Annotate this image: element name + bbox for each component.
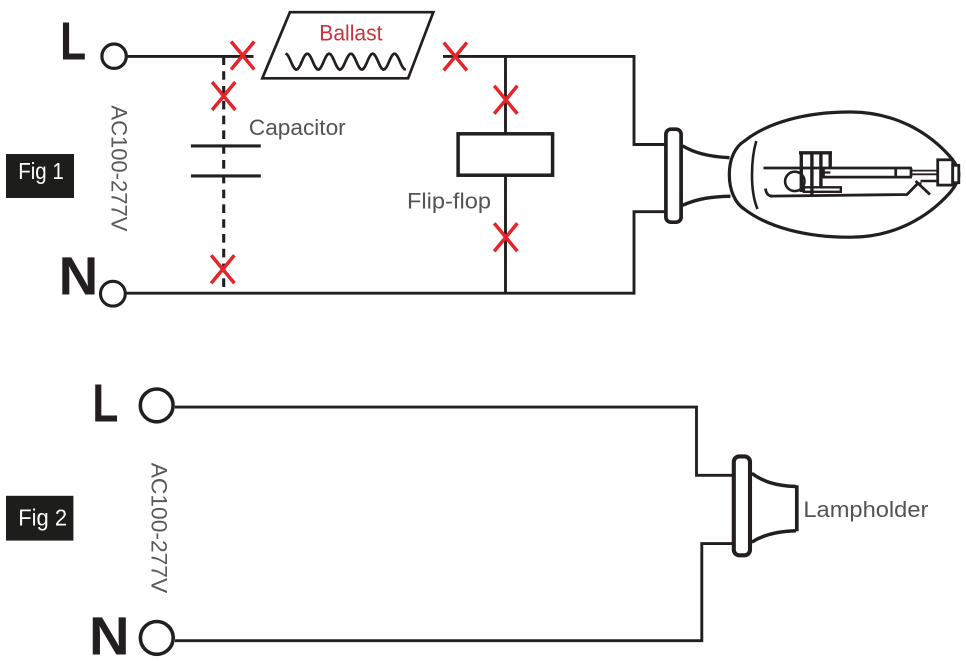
lamp socket trumpet bottom curve <box>683 196 731 205</box>
svg-text:AC100-277V: AC100-277V <box>146 463 171 594</box>
lamp stem top line <box>764 167 912 170</box>
lamp frame bottom wire <box>770 184 922 196</box>
lampholder mouth line <box>795 485 799 531</box>
cut mark X5 on flip-flop branch lower <box>494 223 517 251</box>
svg-text:N: N <box>89 607 130 661</box>
wire right bottom corner up to lamp <box>634 212 666 295</box>
flip-flop branch wire upper <box>504 56 507 133</box>
svg-text:Fig 2: Fig 2 <box>18 504 67 530</box>
capacitor plate bottom <box>191 174 261 177</box>
cut mark X3 after ballast <box>444 43 467 71</box>
Fig 1 badge <box>6 154 74 198</box>
wire L top (Fig 2) <box>175 407 732 475</box>
capacitor dashed branch wire <box>222 56 225 293</box>
lamp lead wire upper <box>912 170 938 172</box>
lamp end cap nub <box>953 165 959 182</box>
lamp mount foot bracket <box>804 187 841 192</box>
lampholder socket cup (Fig 2) <box>734 456 750 555</box>
ballast coil winding <box>286 54 406 70</box>
wire right top corner down to lamp <box>634 55 666 145</box>
lamp mount post 4 <box>829 153 832 168</box>
lamp frame diagonal support <box>916 181 931 195</box>
svg-text:Lampholder: Lampholder <box>803 497 928 522</box>
lamp arc tube band <box>823 168 912 177</box>
terminal circle N (Fig 2) <box>140 622 173 655</box>
lamp socket cup (Fig 1) <box>666 129 681 222</box>
svg-text:N: N <box>59 247 99 307</box>
svg-text:L: L <box>60 11 86 71</box>
lamp frame wire to end cap <box>921 180 938 183</box>
svg-text:L: L <box>92 374 118 434</box>
lamp lead wire lower <box>912 173 938 175</box>
capacitor plate top <box>191 144 261 147</box>
cut mark X4 on flip-flop branch <box>494 86 517 114</box>
svg-text:Fig 1: Fig 1 <box>18 158 64 184</box>
Fig 2 badge <box>6 496 73 541</box>
lamp arc tube left electrode <box>824 171 831 173</box>
terminal circle L (Fig 2) <box>140 389 173 422</box>
lampholder trumpet bottom curve <box>752 531 796 543</box>
cut mark X6 on capacitor branch lower <box>211 255 234 283</box>
lamp mount post 1 <box>800 153 803 192</box>
terminal circle L (Fig 1) <box>102 44 126 68</box>
cut mark X2 on capacitor branch <box>212 82 235 110</box>
lamp envelope outline <box>729 112 959 237</box>
flip-flop branch wire lower <box>504 175 507 293</box>
lamp neck inner line <box>752 141 758 209</box>
svg-text:AC100-277V: AC100-277V <box>106 105 131 231</box>
wire L from terminal to cut <box>128 55 254 58</box>
lampholder trumpet top curve <box>752 473 796 486</box>
svg-text:Ballast: Ballast <box>319 20 382 45</box>
svg-text:Flip-flop: Flip-flop <box>407 189 491 214</box>
ballast parallelogram <box>262 12 433 78</box>
lamp mount circle <box>785 172 804 191</box>
lamp mount post 3 <box>819 153 822 188</box>
wire from ballast to right corner <box>443 55 634 58</box>
cut mark X1 on wire L <box>231 42 254 70</box>
lamp mount top bar <box>799 151 832 154</box>
wire N bottom (Fig 2) <box>175 544 732 641</box>
terminal circle N (Fig 1) <box>101 281 126 306</box>
flip-flop box <box>458 134 552 175</box>
lamp end cap <box>938 160 953 185</box>
lamp socket trumpet top curve <box>683 146 730 158</box>
wire N bottom <box>127 292 635 295</box>
svg-text:Capacitor: Capacitor <box>249 115 346 140</box>
lamp mount post 2 <box>810 153 813 196</box>
lamp stem left rounded end <box>766 189 773 197</box>
lamp arc tube divider <box>894 168 897 177</box>
